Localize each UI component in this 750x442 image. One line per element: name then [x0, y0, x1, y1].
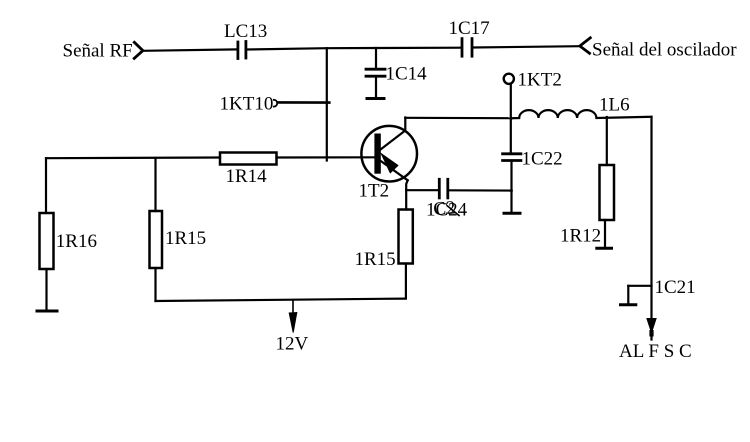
wire input to LC13 [143, 49, 237, 50]
svg-text:1C22: 1C22 [522, 149, 563, 170]
wire LC13 to 1C17 [247, 48, 462, 50]
wire 1R12 down [604, 220, 606, 248]
resistor 1R15 left [150, 211, 163, 268]
wire emitter down [406, 180, 408, 209]
svg-text:AL F S C: AL F S C [619, 341, 692, 362]
svg-text:1T2: 1T2 [359, 181, 390, 202]
wire base rail left [46, 156, 220, 159]
wire 1C17 to output arrow [473, 46, 580, 47]
svg-text:Señal del oscilador: Señal del oscilador [592, 40, 737, 61]
ground 1C14 [367, 97, 384, 100]
ground 1C22 [504, 212, 520, 215]
capacitor 1C24 [439, 179, 448, 198]
inductor 1L6 [512, 110, 652, 118]
resistor 1R15 right [399, 210, 413, 264]
wire 1KT10 to node A [278, 101, 330, 104]
resistor 1R14 [220, 153, 277, 165]
wire 1L6 right down [650, 117, 652, 340]
wire mid branch down [154, 158, 156, 211]
label 1C24 overstruck [426, 197, 468, 220]
wire bottom rail [156, 299, 405, 301]
capacitor 1C21 [621, 286, 652, 305]
svg-text:1R16: 1R16 [56, 231, 97, 252]
output arrow AL F S C [647, 319, 656, 333]
svg-text:1C21: 1C21 [655, 277, 696, 298]
terminal 1KT2 [504, 74, 514, 84]
wire 1R16 to ground [45, 269, 47, 310]
wire left branch down [45, 158, 47, 213]
input arrow [134, 42, 143, 58]
svg-text:1C17: 1C17 [449, 18, 490, 39]
svg-text:1R14: 1R14 [226, 166, 268, 187]
wire 1C24 to node C [448, 189, 511, 192]
transistor 1T2 [361, 118, 417, 182]
ground 1R16 [37, 310, 57, 313]
wire 1R14 to base [277, 156, 376, 158]
svg-text:1R12: 1R12 [560, 225, 601, 246]
svg-text:Señal RF: Señal RF [63, 41, 133, 62]
supply arrow 12V [289, 300, 297, 333]
resistor 1R12 [600, 165, 615, 220]
svg-text:1L6: 1L6 [599, 95, 630, 116]
contact 1KT10 [274, 100, 277, 107]
terminal bar 1R12 [597, 247, 612, 250]
wire 1R15 to rail [154, 268, 156, 301]
svg-text:LC13: LC13 [224, 21, 267, 42]
svg-text:C2: C2 [433, 197, 457, 220]
output arrow [580, 38, 591, 54]
svg-text:1KT2: 1KT2 [518, 70, 562, 91]
wire node B to 1R12 [606, 117, 608, 165]
wire emitter to 1C24 [406, 189, 439, 191]
svg-text:12V: 12V [276, 334, 309, 355]
wire vertical node A [326, 48, 328, 160]
capacitor 1C17 [462, 39, 472, 57]
capacitor LC13 [238, 42, 246, 59]
wire 1C22 to ground [510, 161, 512, 212]
svg-text:1R15: 1R15 [355, 249, 396, 270]
capacitor 1C14 [366, 48, 385, 97]
wire 1KT2 down to 1C22 [510, 84, 512, 154]
resistor 1R16 [40, 213, 54, 269]
capacitor 1C22 [503, 154, 521, 161]
wire 1R15 to bottom rail [405, 264, 407, 299]
wire collector to node B [405, 117, 511, 120]
svg-text:1C14: 1C14 [386, 63, 428, 84]
svg-text:1R15: 1R15 [165, 228, 206, 249]
svg-text:1KT10: 1KT10 [220, 93, 274, 114]
